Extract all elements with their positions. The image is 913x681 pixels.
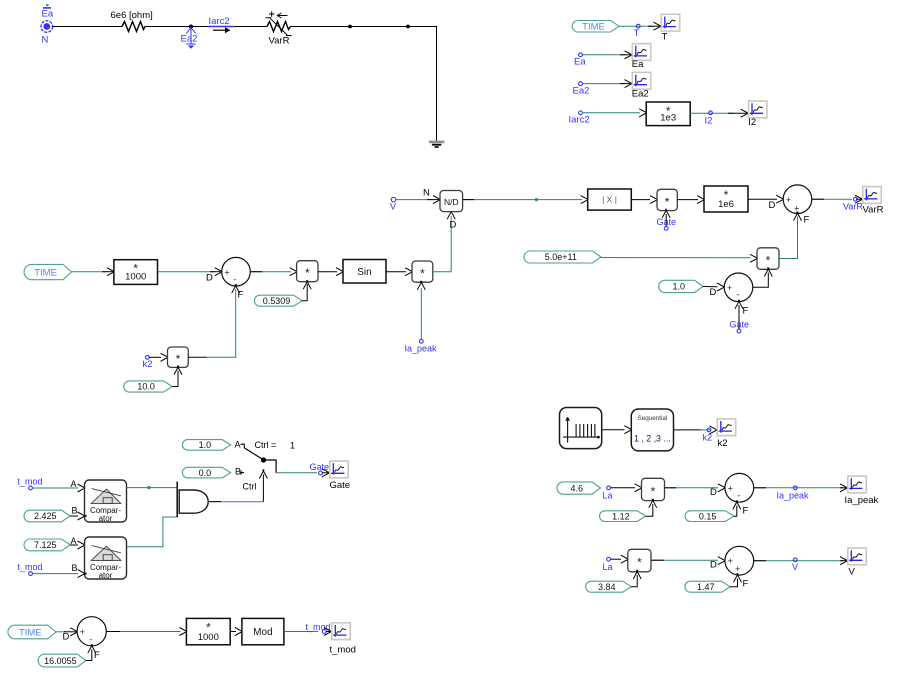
svg-text:F: F — [743, 506, 749, 517]
svg-text:N/D: N/D — [444, 197, 459, 207]
svg-text:10.0: 10.0 — [137, 382, 155, 392]
svg-text:k2: k2 — [718, 438, 728, 449]
arrow into mult3 — [161, 353, 170, 361]
arrow into summer1 D — [215, 268, 224, 276]
svg-text:N: N — [42, 35, 49, 46]
svg-text:+: + — [735, 564, 740, 574]
wire 1000 to Mod — [230, 631, 236, 633]
wire V to N/D — [396, 199, 431, 201]
svg-text:0.0: 0.0 — [199, 468, 212, 478]
arrow into mult1 — [290, 268, 299, 276]
wire black stub summer1 out — [250, 271, 262, 273]
plot icon T — [661, 14, 679, 31]
summing junction S1 — [222, 257, 251, 286]
arrow up into summer3 F — [735, 300, 743, 309]
constant 1.0 (switch A) — [182, 440, 230, 451]
svg-text:*: * — [420, 267, 425, 281]
wire Sequential to k2 plot — [674, 429, 703, 431]
svg-text:B: B — [72, 563, 78, 573]
variable resistor VarR — [266, 11, 292, 35]
svg-text:t_mod: t_mod — [306, 622, 331, 632]
arrow up into summer4 F — [88, 644, 96, 653]
wire comp2 out to AND — [127, 517, 177, 547]
wire 1e3 to I2 plot — [690, 112, 733, 114]
wire black stub mult7 out — [651, 559, 664, 561]
svg-text:D: D — [769, 200, 776, 211]
wire t_mod to comp2 B — [32, 573, 78, 575]
summing junction S5 (Ia_peak) — [725, 473, 754, 502]
arrow into summer6 D — [718, 557, 727, 565]
svg-text:*: * — [651, 485, 656, 499]
wire black stub N/D out — [463, 199, 474, 201]
svg-text:*: * — [176, 352, 181, 366]
svg-text:+: + — [224, 267, 229, 277]
wire black stub summer5 out — [754, 487, 766, 489]
ground — [429, 142, 444, 147]
constant 7.125 — [24, 539, 70, 551]
svg-text:Ea: Ea — [632, 59, 644, 70]
constant 0.0 (switch B) — [182, 467, 230, 478]
wire 1.47 to summer6 F — [730, 579, 738, 587]
node Ia_peak — [793, 486, 797, 490]
wire mult6 to summer5 — [665, 487, 719, 489]
wire mult1 to Sin — [318, 271, 337, 273]
wire 0.15 to summer5 F — [734, 506, 737, 517]
node V (out) — [793, 558, 797, 562]
node Iarc2 — [579, 111, 583, 115]
plot icon VarR — [863, 187, 881, 204]
node t_mod (comp2) — [29, 572, 33, 576]
svg-text:Ea2: Ea2 — [181, 34, 198, 45]
svg-text:D: D — [450, 220, 457, 231]
wire black seg summer1 — [210, 271, 221, 273]
arrow into mult6 — [635, 484, 644, 492]
wire Gate up to mult4 — [665, 214, 667, 227]
svg-text:-: - — [89, 635, 92, 645]
wire comp1 out to AND — [127, 487, 177, 489]
wire La to mult7 — [611, 558, 622, 560]
arrow up into mult2 bottom — [417, 281, 425, 290]
node Ea2 — [579, 82, 583, 86]
arrow into Sin — [336, 268, 345, 276]
svg-text:D: D — [710, 487, 717, 498]
arrow into summer3 D — [717, 283, 726, 291]
arrow into summer5 D — [718, 484, 727, 492]
arrow into summer4 D — [70, 628, 79, 636]
svg-text:Iarc2: Iarc2 — [209, 16, 230, 27]
arrow up into mult6 bottom — [649, 499, 657, 508]
svg-text:Ia_peak: Ia_peak — [777, 490, 810, 500]
svg-text:TIME: TIME — [34, 268, 57, 279]
multiplier M5 — [757, 248, 779, 269]
svg-text:Ctrl =: Ctrl = — [255, 440, 277, 450]
svg-text:1.47: 1.47 — [697, 582, 715, 592]
svg-text:La: La — [603, 491, 613, 501]
arrow up into mult4 bottom — [662, 209, 670, 218]
wire Gate up to summer3 F — [738, 305, 740, 329]
voltmeter Ea2 — [186, 28, 195, 49]
node k2 input — [145, 355, 149, 359]
wire black seg summer4 — [64, 631, 77, 633]
node dot Ea2 — [189, 25, 193, 29]
wire AND out to switch Ctrl — [221, 501, 263, 503]
svg-text:F: F — [743, 579, 749, 590]
summing junction S4 (t_mod) — [77, 617, 106, 646]
wire 7.125 to comp2 A — [70, 544, 78, 546]
wire 5.0e+11 to mult5 — [601, 257, 751, 259]
svg-text:1.0: 1.0 — [673, 282, 686, 292]
svg-text:V: V — [390, 202, 396, 212]
constant 1.0 — [659, 280, 703, 292]
wire summer4 to 1000 box — [106, 631, 180, 633]
constant 4.6 — [557, 482, 601, 494]
svg-text:A: A — [235, 440, 241, 450]
svg-text:La: La — [603, 562, 613, 572]
constant 2.425 — [24, 510, 70, 522]
arrow into V plot — [840, 557, 849, 565]
svg-text:Ctrl: Ctrl — [243, 482, 257, 492]
arrow up into N/D D input — [447, 210, 455, 219]
absolute value block |X| — [588, 189, 632, 210]
node La (row3) — [607, 557, 611, 561]
wire mult3 to summer1 F — [207, 289, 236, 357]
plot icon Gate — [330, 461, 348, 478]
svg-text:D: D — [710, 560, 717, 571]
arrow into mult7 — [621, 555, 630, 563]
wire black seg I2 plot — [728, 112, 747, 114]
impulse generator block — [560, 408, 602, 449]
svg-text:*: * — [766, 254, 771, 268]
svg-text:N: N — [423, 188, 430, 199]
node La (row2) — [607, 486, 611, 490]
wire abs to mult4 — [631, 199, 650, 201]
node t_mod (comp1) — [29, 486, 33, 490]
wire TIME to 1000 box — [72, 271, 107, 273]
plot icon I2 — [749, 101, 767, 118]
TIME source tag (top) — [572, 21, 619, 33]
svg-text:ator: ator — [99, 571, 113, 580]
svg-text:t_mod: t_mod — [330, 645, 356, 656]
svg-text:7.125: 7.125 — [34, 540, 57, 550]
junction dot 1 — [348, 25, 352, 29]
svg-text:A: A — [71, 479, 77, 489]
wire Ea to plot — [583, 54, 626, 56]
svg-text:Sin: Sin — [357, 267, 371, 278]
source node Ea — [41, 4, 54, 32]
svg-text:*: * — [665, 195, 670, 209]
wire mult3 out stub — [188, 356, 206, 358]
svg-text:Sequential: Sequential — [638, 415, 668, 422]
arrow into N/D — [433, 196, 442, 204]
svg-text:I2: I2 — [705, 116, 713, 127]
svg-text:D: D — [63, 632, 70, 643]
svg-text:A: A — [71, 536, 77, 546]
node T — [636, 24, 640, 28]
wire k2 to mult3 — [149, 356, 161, 358]
multiplier M2 — [412, 261, 433, 282]
svg-text:+: + — [728, 556, 733, 566]
constant 5.0e+11 — [524, 251, 601, 263]
plot icon Ea — [632, 44, 650, 61]
switch B stub — [241, 470, 244, 475]
svg-text:TIME: TIME — [582, 22, 605, 33]
wire black seg VarR plot — [856, 198, 861, 200]
constant 0.5309 — [254, 295, 302, 306]
arrow into I2 plot — [741, 109, 750, 117]
arrow into Sequential — [624, 426, 633, 434]
wire VarR to ground — [291, 27, 437, 142]
wire mult7 to summer6 — [651, 559, 718, 561]
constant 3.84 — [586, 581, 632, 592]
svg-text:4.6: 4.6 — [570, 483, 583, 493]
arrow into Ia_peak plot — [840, 484, 849, 492]
arrow into 1000 box — [107, 268, 116, 276]
wire teal seg k2 — [700, 429, 711, 431]
wire 1.0 to summer3 — [703, 286, 718, 288]
svg-text:*: * — [305, 266, 310, 280]
arrow up into mult7 bottom — [633, 570, 641, 579]
svg-text:+: + — [786, 195, 791, 205]
node t_mod (out) — [322, 630, 326, 634]
svg-text:1.0: 1.0 — [199, 440, 212, 450]
ammeter Iarc2 — [208, 27, 235, 34]
svg-text:+: + — [727, 283, 732, 293]
Sin block — [343, 260, 386, 284]
wire Ctrl vertical — [262, 475, 264, 502]
wire summer3 to mult5 bottom — [753, 273, 769, 288]
wire black seg Ea plot — [620, 54, 631, 56]
svg-text:VarR: VarR — [863, 205, 884, 216]
svg-text:1000: 1000 — [125, 271, 146, 282]
svg-text:Gate: Gate — [330, 480, 351, 491]
gain block 1e6 — [704, 186, 748, 212]
svg-text:0.5309: 0.5309 — [263, 296, 291, 306]
wire Sin to mult2 — [386, 271, 406, 273]
svg-text:Ea2: Ea2 — [632, 89, 649, 100]
constant 1.47 — [685, 581, 730, 592]
wire Ea2 to plot — [583, 83, 626, 85]
switch arm and pivot — [241, 444, 277, 473]
svg-text:I2: I2 — [748, 117, 756, 128]
svg-text:1 , 2 ,3 ...: 1 , 2 ,3 ... — [634, 434, 671, 444]
plot icon Ea2 — [632, 72, 650, 89]
arrow into Ea plot — [625, 51, 634, 59]
wire black seg V plot — [840, 560, 846, 562]
constant 16.0055 — [38, 654, 86, 667]
arrow into 1e3 box — [639, 109, 648, 117]
wire La to mult6 — [611, 487, 636, 489]
resistor R1 6e6 ohm — [122, 22, 145, 32]
wire black stub summer6 out — [754, 560, 766, 562]
node VarR — [853, 197, 857, 201]
wire 2.425 to comp1 B — [70, 515, 78, 517]
svg-text:0.15: 0.15 — [699, 511, 717, 521]
svg-text:F: F — [743, 306, 749, 317]
arrow into 1e6 block — [697, 196, 706, 204]
constant 0.15 — [685, 511, 734, 522]
multiplier M3 — [168, 347, 189, 367]
arrow up into mult5 bottom — [764, 268, 772, 277]
wire black seg to T plot — [648, 25, 660, 27]
svg-text:Iarc2: Iarc2 — [569, 115, 590, 126]
svg-text:B: B — [235, 466, 241, 476]
arrow into mult4 — [650, 196, 659, 204]
svg-text:1000: 1000 — [198, 632, 219, 643]
wire N/D to abs — [463, 199, 582, 201]
node Gate (mult4) — [664, 227, 668, 231]
arrow into mult2 — [405, 268, 414, 276]
svg-text:V: V — [792, 562, 798, 572]
svg-text:| X |: | X | — [602, 195, 617, 205]
svg-text:F: F — [804, 215, 810, 226]
svg-text:Ea: Ea — [42, 9, 54, 20]
svg-text:1e3: 1e3 — [660, 113, 676, 124]
svg-text:-: - — [233, 275, 236, 285]
wire black stub summer4 out — [106, 631, 120, 633]
wire impulse to Sequential — [602, 429, 625, 431]
arrow into Mod — [235, 628, 244, 636]
summing junction S2 (VarR) — [783, 185, 812, 214]
arrow up into mult3 bottom — [174, 366, 182, 375]
TIME source tag (middle) — [24, 264, 71, 279]
arrow up into summer2 F — [794, 212, 802, 221]
svg-text:-: - — [737, 490, 740, 500]
svg-text:T: T — [662, 32, 668, 43]
summing junction S3 (Gate) — [724, 273, 753, 302]
arrow into Gate plot — [322, 469, 331, 477]
wire 1000 to summer — [158, 271, 215, 273]
svg-text:6e6 [ohm]: 6e6 [ohm] — [111, 10, 153, 21]
svg-text:Ea: Ea — [574, 57, 586, 68]
wire t_mod to comp1 A — [32, 487, 78, 489]
junction dot teal — [535, 198, 538, 201]
wire black seg Ia_peak plot — [840, 487, 846, 489]
arrow into VarR plot — [855, 195, 864, 203]
multiplier M4 (Gate) — [657, 189, 677, 210]
wire 1.12 to mult6 — [646, 504, 653, 516]
arrow into k2 plot — [710, 426, 719, 434]
arrow into Ea2 plot — [625, 80, 634, 88]
plot icon V — [848, 548, 866, 565]
svg-text:T: T — [634, 28, 640, 38]
Mod block — [242, 618, 284, 644]
wire black stub summer2 out — [812, 198, 824, 200]
gain block 1000 (bottom) — [186, 618, 230, 644]
wire black seg Gate plot — [322, 472, 328, 474]
wire mult2 up to N/D — [433, 216, 451, 272]
comparator U2 — [85, 537, 127, 580]
wire TIME to summer4 — [56, 631, 66, 633]
plot icon Ia_peak — [848, 476, 866, 493]
Sequential block — [631, 409, 673, 451]
wire black seg N/D — [427, 199, 439, 201]
svg-text:k2: k2 — [703, 433, 713, 443]
wire mult5 to summer2 F — [779, 217, 798, 259]
wire summer5 to Ia_peak plot — [754, 487, 843, 489]
wire Ia_peak up to mult2 — [420, 288, 422, 339]
wire TIME to T plot — [619, 25, 654, 27]
arrow into t_mod plot — [324, 628, 333, 636]
wire summer1 to mult1 — [250, 271, 291, 273]
svg-text:D: D — [206, 273, 213, 284]
svg-text:1.12: 1.12 — [612, 511, 630, 521]
svg-text:+: + — [80, 627, 85, 637]
arrow up into summer6 F — [734, 573, 742, 582]
wire Iarc2 to 1e3 — [583, 112, 641, 114]
arrow up into summer1 F — [232, 284, 240, 293]
svg-text:5.0e+11: 5.0e+11 — [545, 252, 577, 262]
arrow into abs block — [581, 196, 590, 204]
TIME source tag (bottom) — [8, 625, 56, 639]
wire summer2 to VarR plot — [812, 198, 852, 200]
junction dot 2 — [406, 25, 410, 29]
svg-text:t_mod: t_mod — [18, 477, 43, 487]
arrow into comp2 B — [78, 570, 87, 578]
svg-text:+: + — [728, 483, 733, 493]
svg-text:2.425: 2.425 — [34, 511, 57, 521]
svg-text:Mod: Mod — [253, 627, 272, 638]
wire 10.0 to mult3 — [172, 371, 178, 387]
wire black seg 1000 — [102, 271, 113, 273]
node k2 (out) — [707, 428, 711, 432]
wire 3.84 to mult7 — [631, 575, 637, 587]
summing junction S6 (V) — [725, 546, 754, 575]
AND gate G1 — [177, 482, 221, 518]
arrow up into summer5 F — [733, 500, 741, 509]
svg-text:1e6: 1e6 — [718, 199, 734, 210]
svg-text:V: V — [849, 567, 856, 578]
constant 10.0 — [124, 381, 172, 392]
node Ea — [579, 53, 583, 57]
wire Mod to t_mod plot — [284, 631, 318, 633]
junction dot comp1 — [147, 486, 150, 489]
arrow up Ctrl — [259, 470, 267, 479]
svg-text:Ia_peak: Ia_peak — [405, 344, 438, 354]
svg-text:t_mod: t_mod — [18, 562, 43, 572]
svg-text:D: D — [710, 287, 717, 298]
arrow into mult5 — [750, 254, 759, 262]
arrow into comp2 A — [78, 541, 87, 549]
arrow into 1000 box (bottom) — [179, 628, 188, 636]
wire summer6 to V plot — [754, 560, 843, 562]
wire resistor to VarR — [145, 26, 267, 28]
svg-text:k2: k2 — [143, 359, 153, 370]
svg-text:3.84: 3.84 — [598, 582, 616, 592]
wire switch out to Gate plot — [276, 472, 317, 474]
wire black stub mult6 out — [665, 487, 677, 489]
plot icon t_mod — [332, 623, 350, 640]
svg-text:VarR: VarR — [843, 202, 863, 212]
svg-text:*: * — [637, 556, 642, 570]
wire black seg Ea2 plot — [620, 83, 631, 85]
svg-text:16.0055: 16.0055 — [44, 656, 77, 666]
svg-text:Ea2: Ea2 — [573, 85, 590, 96]
arrow up into mult1 — [303, 280, 311, 289]
node I2 — [709, 111, 713, 115]
plot icon k2 — [717, 419, 735, 436]
wire 1e6 to summer2 — [748, 198, 777, 200]
comparator U1 — [85, 480, 127, 523]
wire black seg t_mod plot — [326, 631, 330, 633]
node Gate (switch out) — [319, 471, 323, 475]
svg-text:ator: ator — [99, 514, 113, 523]
arrow into summer2 D — [776, 195, 785, 203]
wire mult4 to 1e6 — [677, 199, 698, 201]
arrow into comp1 A — [78, 484, 87, 492]
svg-text:B: B — [72, 506, 78, 516]
svg-text:VarR: VarR — [269, 36, 290, 47]
svg-text:TIME: TIME — [19, 627, 42, 638]
